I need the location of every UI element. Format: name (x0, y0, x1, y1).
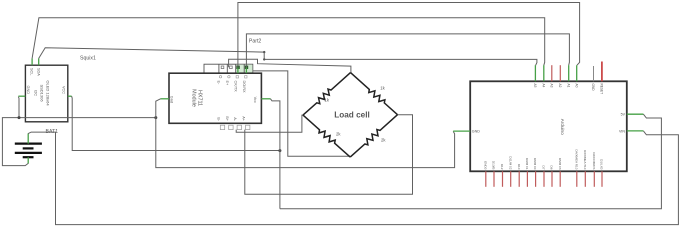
svg-text:GND: GND (26, 86, 30, 95)
wire HX711 E+ to load cell top (229, 59, 351, 72)
wire HX711 DO/RX to Arduino (246, 34, 569, 67)
wire HX711 Vcc to 5V rail (271, 99, 280, 209)
HX711 pin B- (216, 117, 224, 129)
resistor R-bottomright 2k (350, 115, 397, 157)
wire HX711 A- to load cell left (236, 115, 303, 132)
svg-text:D5/M 03: D5/M 03 (558, 158, 562, 170)
svg-text:D4/XMEA R10: D4/XMEA R10 (574, 150, 578, 170)
svg-text:D8/M 00: D8/M 00 (533, 158, 537, 170)
svg-text:D7: D7 (542, 166, 546, 170)
resistor R-topleft 1k (303, 73, 351, 116)
Arduino pin GND top (591, 66, 595, 91)
svg-text:GND0: GND0 (483, 161, 487, 170)
svg-text:Part2: Part2 (249, 39, 262, 45)
wire OLED SCL to Arduino A4 (32, 18, 545, 66)
HX711 pin Vcc (253, 97, 270, 103)
svg-text:SCL: SCL (30, 68, 34, 75)
svg-text:Module: Module (191, 89, 197, 107)
node bendpoint SDA lower (263, 58, 265, 60)
Arduino pin A5 (533, 65, 537, 87)
svg-text:A3: A3 (549, 84, 553, 88)
wire OLED VCC to 5V net (72, 96, 280, 150)
svg-text:A0: A0 (574, 84, 578, 88)
svg-text:VIN: VIN (619, 129, 625, 133)
svg-text:A4: A4 (541, 84, 545, 88)
svg-text:5V: 5V (621, 113, 626, 117)
Arduino bottom pins D group (486, 171, 602, 187)
resistor R-topright 1k (351, 73, 398, 115)
wire HX711 Gnd to Arduino GND (156, 99, 455, 168)
node junction 5V (278, 149, 281, 152)
svg-text:DO/RX: DO/RX (242, 81, 246, 93)
node junction GND-HX711 (154, 116, 157, 119)
wire battery+ to VIN rail (28, 131, 678, 225)
svg-text:GND: GND (472, 130, 480, 134)
svg-text:Gnd: Gnd (170, 96, 174, 103)
Arduino pin A3 (549, 65, 553, 87)
svg-text:D9/M 01: D9/M 01 (525, 158, 529, 170)
OLED pin SCL (30, 58, 34, 75)
svg-text:GND: GND (591, 84, 595, 92)
svg-text:D12: D12 (500, 164, 504, 170)
wire OLED SDA to Arduino A5 (39, 48, 537, 66)
wire OLED GND drop (17, 97, 20, 118)
node bendpoint SDA upper (263, 51, 265, 53)
wire HX711 CK/TX to Arduino (238, 3, 580, 68)
svg-text:D6: D6 (550, 166, 554, 170)
OLED pin SDA (36, 58, 40, 76)
svg-text:D10: D10 (517, 164, 521, 170)
svg-text:RESET: RESET (600, 84, 604, 95)
svg-text:E+: E+ (225, 81, 229, 87)
Arduino pin A2 (558, 65, 562, 87)
Arduino pin A0 (574, 65, 578, 87)
battery BAT1 (15, 129, 58, 164)
svg-text:Squix1: Squix1 (80, 56, 96, 62)
svg-text:D2/COM/CS: D2/COM/CS (592, 152, 596, 169)
connector Part2 (204, 39, 261, 74)
Arduino U1 (470, 81, 627, 171)
svg-text:Arduino: Arduino (560, 119, 565, 135)
Arduino pin GND left (453, 130, 480, 134)
HX711 pin Gnd (161, 96, 174, 103)
wire 5V rail to Arduino 5V (280, 114, 662, 209)
OLED pin VCC (62, 86, 72, 96)
svg-text:A+: A+ (242, 116, 246, 122)
svg-text:I2C: I2C (34, 90, 39, 96)
wire battery- to GND line (2, 118, 155, 166)
load cell bridge (303, 73, 398, 158)
HX711 pin E- (217, 76, 222, 85)
svg-text:B+: B+ (225, 116, 229, 122)
svg-text:A5: A5 (533, 84, 537, 88)
Arduino pin 5V right (621, 113, 644, 117)
HX711 pin CK/TX (234, 67, 239, 92)
Arduino pin A1 (566, 65, 570, 87)
HX711 pin E+ (225, 76, 230, 86)
svg-text:D13/B: D13/B (492, 161, 496, 170)
svg-text:D1/LX0: D1/LX0 (600, 159, 604, 170)
Arduino pin RESET (600, 62, 604, 95)
svg-text:OLED 128x64: OLED 128x64 (46, 80, 51, 106)
HX711 pin DO/RX (242, 67, 247, 93)
HX711 pin A- (233, 117, 241, 129)
HX711 module U-HX (169, 73, 261, 123)
HX711 pin A+ (242, 116, 250, 129)
svg-text:D11/M 02: D11/M 02 (508, 156, 512, 169)
svg-text:Load cell: Load cell (334, 111, 370, 120)
wire HX711 A+ to load cell right (245, 115, 413, 195)
svg-text:SDA: SDA (36, 68, 40, 76)
Arduino pin A4 (541, 65, 545, 87)
svg-text:D3/XMEA T10: D3/XMEA T10 (583, 150, 587, 170)
svg-text:SSD1306: SSD1306 (40, 84, 45, 102)
OLED display Squix1 (25, 56, 96, 122)
OLED pin GND (18, 86, 30, 97)
svg-text:A1: A1 (566, 84, 570, 88)
svg-text:A2: A2 (558, 84, 562, 88)
node junction GND-battery (18, 116, 21, 119)
Arduino pin VIN right (619, 129, 643, 133)
svg-text:Vcc: Vcc (253, 97, 257, 103)
resistor R-bottomleft 2k (303, 115, 350, 157)
svg-text:CK/TX: CK/TX (234, 81, 238, 93)
HX711 pin B+ (225, 116, 233, 129)
wire Part2 to load cell bottom (253, 71, 350, 156)
Arduino bottom pin labels (483, 150, 603, 170)
svg-text:VCC: VCC (62, 86, 66, 94)
